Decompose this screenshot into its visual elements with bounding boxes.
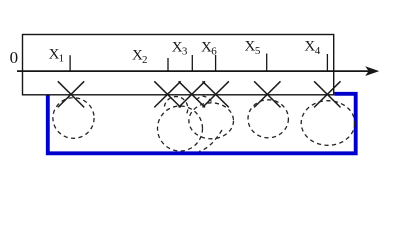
svg-text:X: X bbox=[304, 39, 315, 55]
tick x5 bbox=[266, 54, 268, 72]
dashed arc below x6 circle bbox=[199, 130, 222, 152]
svg-text:2: 2 bbox=[142, 54, 148, 66]
blue region rectangle bbox=[48, 93, 356, 154]
dashed circle around x1 bbox=[53, 98, 94, 139]
cross point x3 bbox=[179, 81, 205, 107]
cross point x1 bbox=[58, 81, 84, 107]
svg-text:4: 4 bbox=[315, 45, 321, 57]
dashed small circle around x2 bbox=[164, 97, 187, 115]
tick x3 bbox=[191, 55, 193, 72]
dashed circle around x4 bbox=[301, 101, 355, 146]
interval rectangle (white filled, black border) bbox=[23, 35, 334, 95]
tick x1 bbox=[69, 55, 71, 71]
svg-text:5: 5 bbox=[255, 45, 261, 57]
svg-text:0: 0 bbox=[10, 48, 19, 67]
dashed circle around x5 bbox=[248, 100, 288, 138]
svg-text:X: X bbox=[245, 39, 256, 55]
svg-text:1: 1 bbox=[59, 53, 65, 65]
tick x4 bbox=[326, 54, 328, 72]
tick x2 bbox=[167, 58, 169, 72]
tick x6 bbox=[215, 55, 217, 72]
axis arrowhead bbox=[365, 66, 379, 76]
svg-text:6: 6 bbox=[211, 46, 217, 58]
dashed arc near line between x3 and x6 bbox=[197, 96, 212, 101]
cross point x2 bbox=[154, 81, 180, 107]
dashed big circle around x3 bbox=[158, 106, 203, 151]
cross point x5 bbox=[254, 81, 280, 107]
svg-text:3: 3 bbox=[182, 46, 188, 58]
cross point x4 bbox=[314, 81, 340, 107]
cross point x6 bbox=[203, 81, 229, 107]
dashed circle around x6 bbox=[189, 103, 234, 139]
axis line bbox=[17, 70, 369, 72]
